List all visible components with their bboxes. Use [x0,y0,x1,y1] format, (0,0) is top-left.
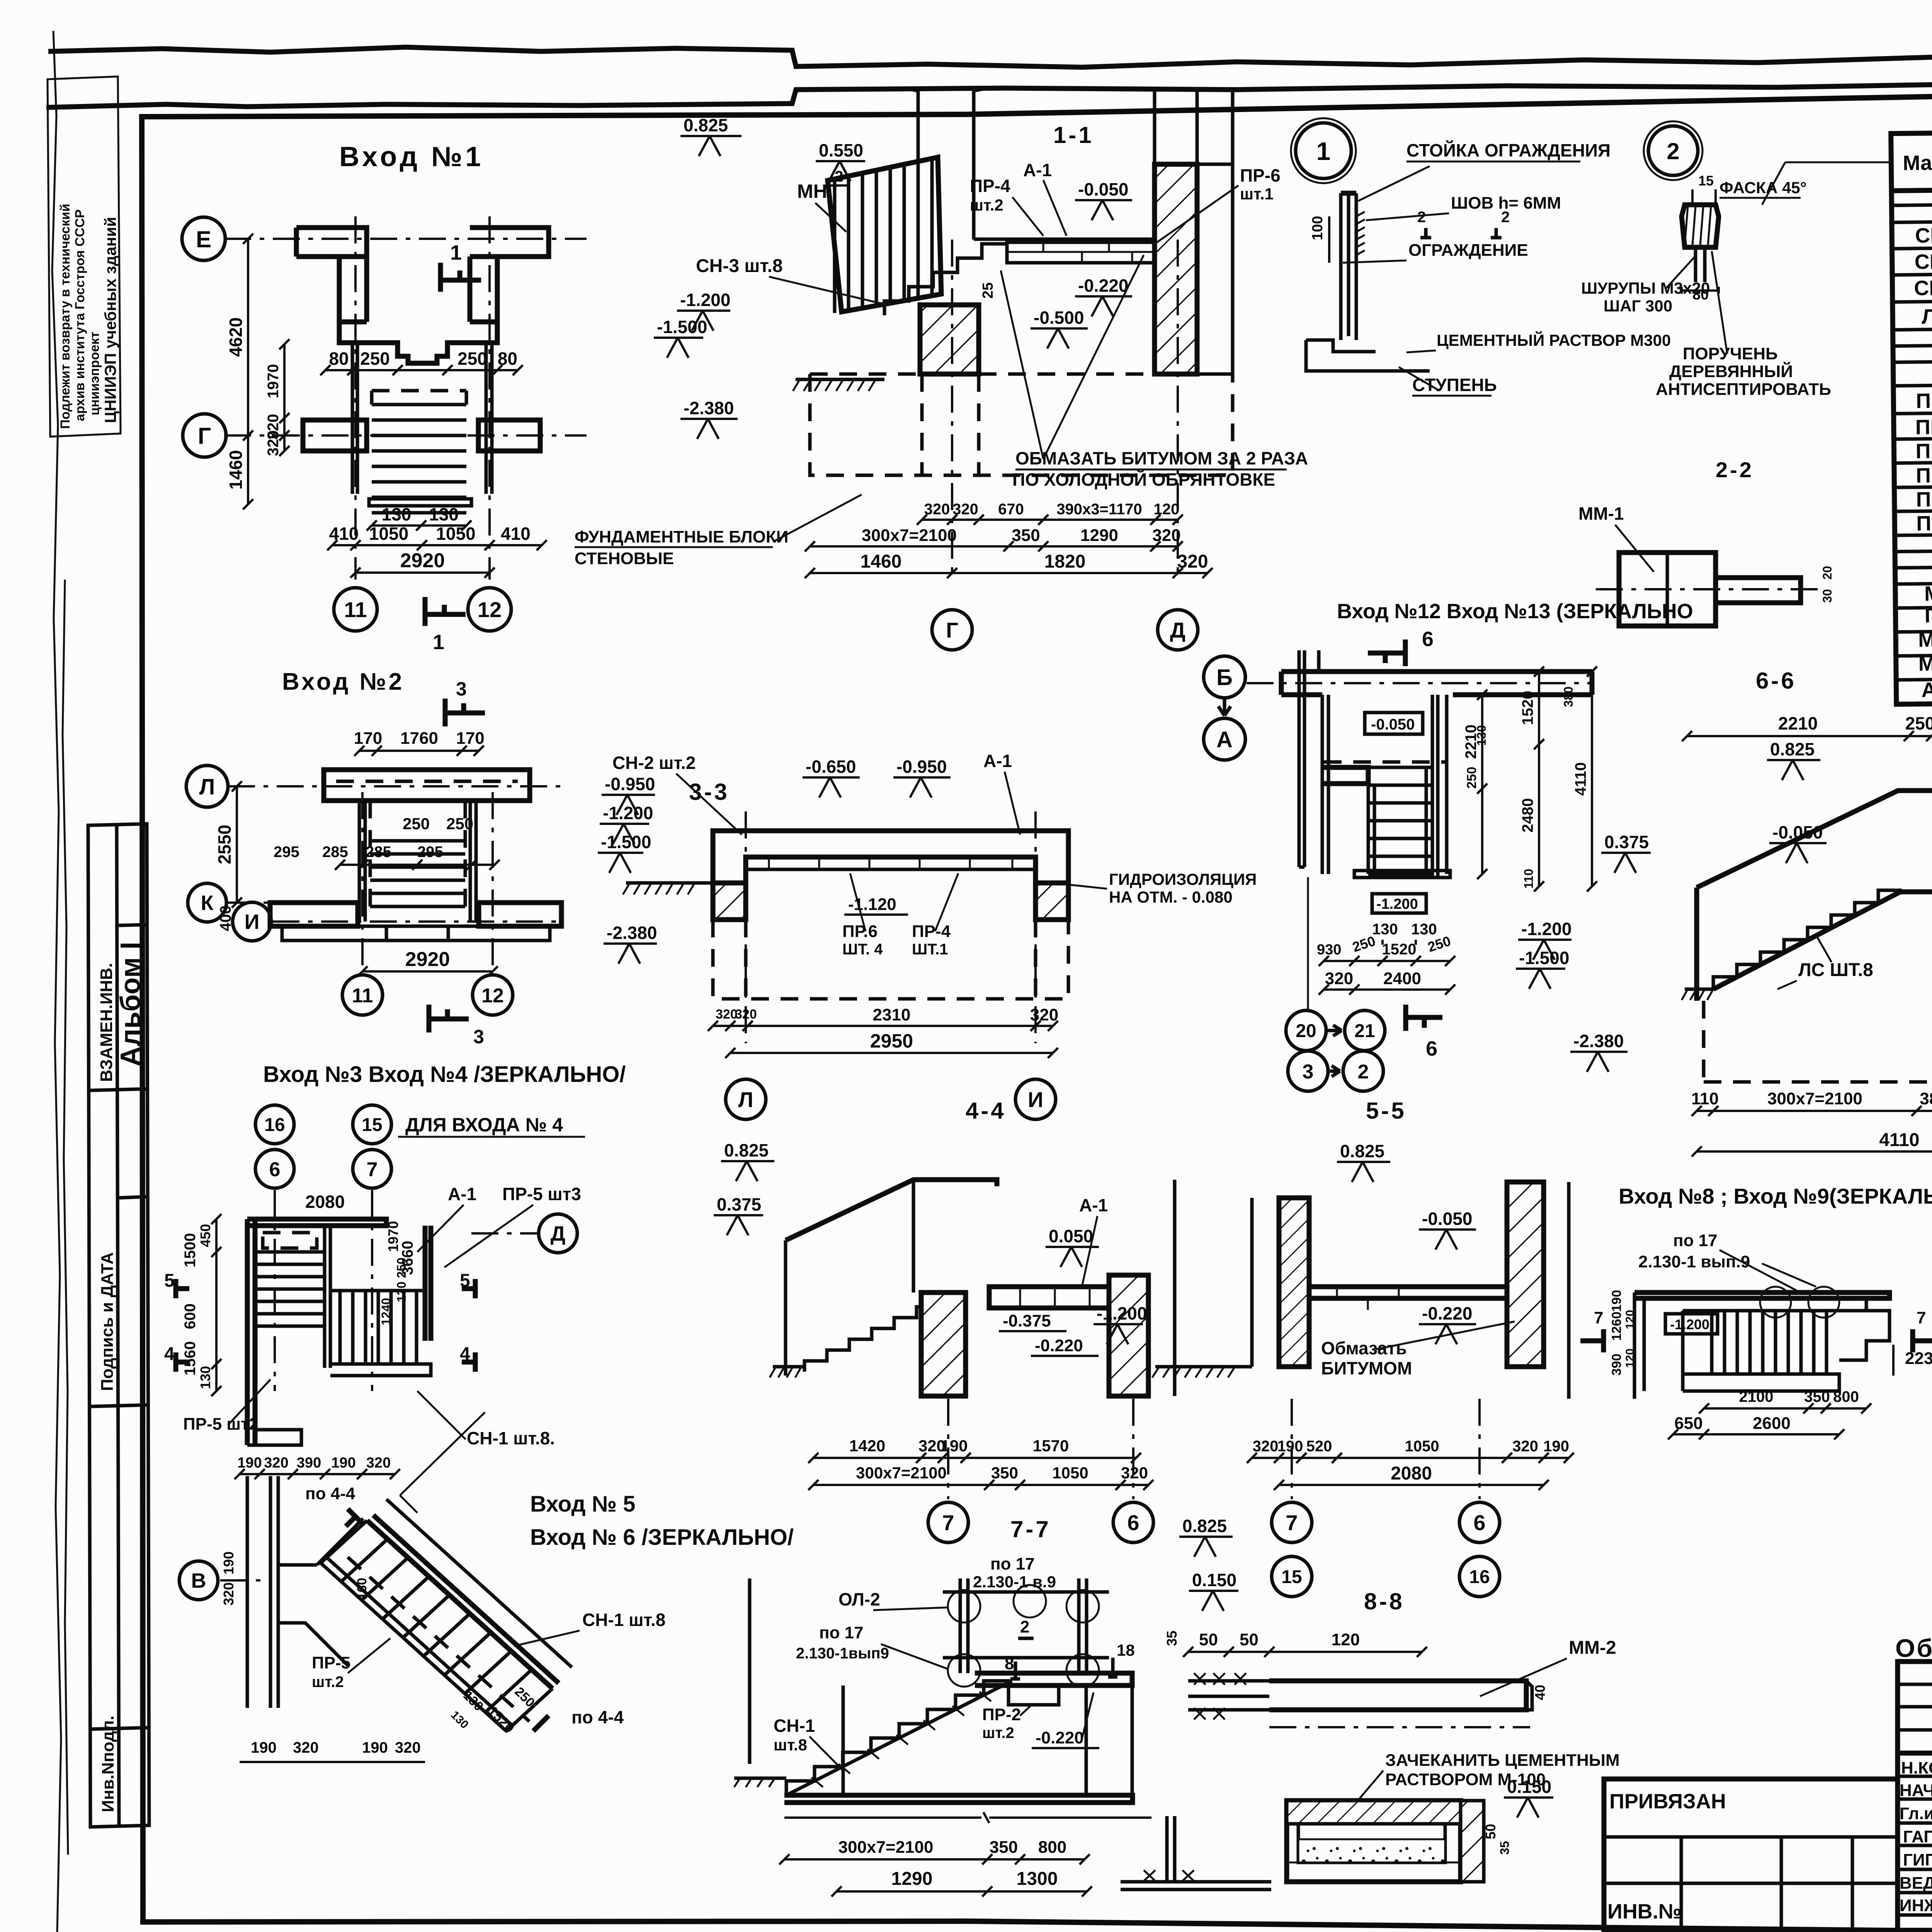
plan Вход №12: section flag 6 top [1368,639,1405,666]
svg-text:120: 120 [1624,1349,1636,1368]
circle 7a [353,1150,391,1188]
axis circle Л [186,765,228,807]
Вход №8: ring circles on plan [1760,1287,1791,1318]
plan Вход №12: vertical dims right [1481,695,1483,874]
Вход №3: lower treads vertical [340,1291,417,1364]
svg-text:350: 350 [1012,526,1040,545]
section 3-3: slab fill lines [769,857,1012,869]
svg-text:110: 110 [1691,1089,1719,1108]
svg-text:ИНЖЕНЕР: ИНЖЕНЕР [1900,1896,1932,1915]
svg-text:80: 80 [329,349,349,369]
plan Вход №12: stair treads [1368,767,1432,874]
svg-text:-0.650: -0.650 [806,757,856,777]
svg-text:3: 3 [473,1026,484,1048]
svg-text:-0.220: -0.220 [1422,1303,1472,1323]
svg-text:190: 190 [1609,1290,1624,1312]
section 7-7: stringer hatch marks [811,1692,991,1787]
svg-text:100: 100 [1310,216,1326,240]
svg-text:4110: 4110 [1572,762,1589,796]
Вход №8: 7 flags [1580,1329,1604,1352]
plan Вход №1: dim 2920 [355,571,490,574]
svg-text:1570: 1570 [1033,1437,1069,1455]
svg-text:130: 130 [382,504,412,524]
svg-text:320: 320 [1325,969,1353,988]
Вход №3: dim 190 320 390 190 320 [240,1473,395,1475]
svg-text:-0.220: -0.220 [1035,1336,1083,1355]
svg-text:30: 30 [1820,589,1834,603]
plan Вход №12: dim 320 2400 [1324,988,1450,991]
circle 16 (5-5) [1459,1556,1500,1597]
section 3-3: left support hatched [713,883,746,920]
svg-text:190: 190 [1277,1438,1303,1455]
svg-text:16: 16 [264,1115,285,1135]
svg-text:250: 250 [403,815,430,833]
plan Вход №2: inner dashed [370,801,465,908]
svg-text:-0.220: -0.220 [1036,1728,1084,1747]
plan Вход №12: dim row 930 250 1520 250 [1324,960,1450,962]
plan: arrow 3-2 [1328,1066,1340,1077]
axis circle Е [182,217,225,260]
Вход №3: plan walls [247,1219,255,1445]
svg-text:ММ-2: ММ-2 [1569,1638,1616,1658]
svg-text:300х7=2100: 300х7=2100 [1767,1089,1862,1108]
svg-text:Е: Е [196,226,211,252]
svg-text:190: 190 [237,1455,262,1471]
svg-text:ЛС ШТ.8: ЛС ШТ.8 [1798,960,1873,980]
plan Вход №1: U wall right vertical [470,257,497,322]
svg-text:Вход № 5: Вход № 5 [530,1492,636,1517]
svg-text:320: 320 [735,1007,757,1022]
specification table [1891,126,1932,704]
svg-text:СТЕНОВЫЕ: СТЕНОВЫЕ [575,549,674,568]
svg-text:410: 410 [501,524,531,544]
svg-text:190: 190 [221,1551,236,1575]
section 1-1: right wall hatched [1155,164,1197,374]
svg-text:Вход № 6 /ЗЕРКАЛЬНО/: Вход № 6 /ЗЕРКАЛЬНО/ [530,1525,794,1550]
circle 21a [1345,1010,1385,1051]
torn paper left edge scribble [52,31,62,1932]
svg-text:-1.200: -1.200 [1670,1316,1709,1332]
svg-text:ПР-5: ПР-5 [312,1653,350,1672]
svg-text:ПР-4: ПР-4 [912,922,951,941]
svg-text:2230: 2230 [1905,1349,1932,1368]
svg-text:2-2: 2-2 [1716,457,1754,482]
svg-text:ШУРУПЫ М3х20: ШУРУПЫ М3х20 [1581,279,1710,297]
svg-text:Гл.инж.АМ: Гл.инж.АМ [1900,1804,1932,1823]
axis circle Г (1-1) [932,610,972,650]
plan Вход №1: section mark 1 top [440,263,481,292]
svg-text:ШТ.1: ШТ.1 [912,941,948,958]
svg-text:930: 930 [1317,942,1341,958]
section 1-1: dim chain 300x7 [810,545,1178,548]
section 5-5: left wall [1252,1198,1279,1367]
svg-text:320: 320 [264,1455,288,1471]
svg-text:1240: 1240 [379,1298,393,1325]
detail 8-8: lower detail angle [1121,1816,1271,1889]
plan Вход №2: axis К [188,883,226,922]
svg-text:8: 8 [1005,1654,1014,1673]
svg-text:-2.380: -2.380 [684,398,734,418]
svg-text:1970: 1970 [385,1221,401,1252]
svg-text:6-6: 6-6 [1756,668,1796,694]
svg-text:320: 320 [1177,551,1208,572]
svg-text:5-5: 5-5 [1366,1098,1406,1124]
section 5-5: right wall lines [1544,1182,1569,1399]
svg-text:-1.500: -1.500 [601,832,651,852]
axis circle Л (3-3) [726,1079,766,1119]
svg-text:320: 320 [1152,526,1180,545]
svg-text:-2.380: -2.380 [607,923,657,943]
plan Вход №12: -0.050 box [1365,713,1423,734]
section 7-7: stringer [786,1681,1012,1795]
section 6-6: dim 2210 250 1650 320 [1687,735,1932,737]
svg-text:2080: 2080 [305,1192,345,1212]
section 3-3: dim 320 320 2310 320 [713,1025,1053,1027]
svg-text:ДЕРЕВЯННЫЙ: ДЕРЕВЯННЫЙ [1669,361,1793,381]
svg-text:ГАП: ГАП [1903,1827,1932,1846]
svg-text:ШАГ 300: ШАГ 300 [1604,297,1672,315]
svg-text:ОГРАЖДЕНИЕ: ОГРАЖДЕНИЕ [1408,241,1528,260]
svg-text:1: 1 [433,631,444,654]
svg-text:350: 350 [990,1838,1018,1857]
svg-text:50: 50 [1240,1630,1259,1649]
node 2: post below [1696,247,1705,282]
svg-text:1050: 1050 [369,524,408,544]
Вход №5: diagonal stair rails [367,1515,559,1689]
node 1: stanchion post [1341,193,1356,340]
plan Вход №1: dim 410 1050 1050 410 [332,544,542,546]
svg-text:архив института Госстроя СССР: архив института Госстроя СССР [73,209,87,421]
svg-text:СН-2: СН-2 [1915,250,1932,274]
svg-text:320: 320 [716,1007,738,1022]
plan Вход №12: -1200 box [1372,894,1426,913]
section 4-4: ground [773,1365,804,1369]
svg-text:11: 11 [352,985,373,1007]
svg-text:АНТИСЕПТИРОВАТЬ: АНТИСЕПТИРОВАТЬ [1656,380,1831,399]
svg-text:шт.2: шт.2 [970,196,1003,214]
section 1-1: upper floor wall left [908,89,983,240]
node detail circle 2 [1648,126,1698,175]
svg-text:1: 1 [1316,137,1331,165]
svg-text:ГИП: ГИП [1903,1850,1932,1869]
svg-text:50: 50 [1199,1630,1218,1649]
svg-text:ПР.6: ПР.6 [842,922,878,941]
section 3-3: dim 2950 [730,1052,1053,1054]
section 4-4: wall below parapet [786,1180,913,1376]
svg-text:320: 320 [1030,1005,1058,1024]
svg-text:шт.8: шт.8 [774,1736,807,1754]
axis circle Д (1-1) [1158,610,1198,650]
detail 8-8: dotted fill [1298,1839,1445,1862]
svg-text:-0.375: -0.375 [1003,1311,1051,1330]
svg-text:ЦНИИЭП учебных зданий: ЦНИИЭП учебных зданий [101,217,119,423]
svg-text:0.375: 0.375 [717,1194,761,1214]
plan: arrow 20-21 [1326,1025,1342,1036]
svg-text:300х7=2100: 300х7=2100 [838,1838,934,1857]
svg-text:16: 16 [1469,1567,1490,1587]
section 5-5: left wall hatched [1279,1198,1309,1367]
svg-text:20: 20 [1296,1021,1316,1041]
detail 8-8: bar [1269,1681,1526,1710]
svg-text:410: 410 [329,524,359,544]
svg-text:2: 2 [1358,1061,1369,1083]
plan Вход №2: dim 295 285 285 295 [340,864,495,866]
svg-text:Д: Д [1170,618,1185,642]
svg-text:ПР-4: ПР-4 [970,176,1010,196]
svg-text:СН-2 шт.2: СН-2 шт.2 [612,753,696,773]
svg-text:Д: Д [551,1222,565,1245]
svg-text:-1.120: -1.120 [848,895,896,914]
svg-text:130: 130 [1411,921,1437,938]
svg-text:Б: Б [1216,665,1233,690]
Вход №3: axis Д circle [539,1214,577,1253]
svg-text:Обмазать: Обмазать [1321,1338,1407,1358]
svg-text:-1.200: -1.200 [680,290,730,310]
plan Вход №1: upper wall left wing [296,228,367,257]
svg-text:НАЧ.АПМ1: НАЧ.АПМ1 [1900,1781,1932,1800]
svg-text:320: 320 [265,430,282,456]
svg-text:-0.050: -0.050 [1422,1209,1472,1229]
plan Вход №2: lower step band [282,926,550,940]
axis circle 6 (5-5) [1459,1502,1500,1543]
plan Вход №12: right wall [1432,695,1447,877]
plan Вход №1: dim 130 130 [372,524,466,527]
svg-text:-0.220: -0.220 [1078,276,1128,296]
svg-text:285: 285 [366,844,391,861]
plan Вход №12: top wall band [1281,672,1592,695]
svg-text:СН-3: СН-3 [1914,276,1932,300]
section 7-7: ground hatch left [734,1777,786,1780]
plan Вход №12: leader to 20 [1307,877,1309,1010]
plan Вход №1: landing dashed [372,391,466,405]
section 3-3: body [713,831,1068,883]
svg-text:ПРИВЯЗАН: ПРИВЯЗАН [1609,1790,1726,1813]
plan Вход №1: axis 11 vertical [354,216,357,580]
svg-text:ПОРУЧЕНЬ: ПОРУЧЕНЬ [1683,344,1778,363]
section 3-3: axis dash-dot Л И [745,811,747,1043]
svg-text:1820: 1820 [1044,551,1086,572]
Вход №3: landing dashed [263,1233,317,1248]
svg-text:250: 250 [360,349,390,369]
Вход №8: treads vertical [1712,1311,1827,1374]
svg-text:250: 250 [446,815,473,833]
svg-text:Инв.Nподл.: Инв.Nподл. [99,1716,117,1812]
svg-text:380: 380 [1561,687,1575,707]
svg-text:1520: 1520 [1519,691,1536,725]
svg-text:250: 250 [457,349,487,369]
svg-text:320: 320 [366,1455,391,1471]
svg-text:-1.200: -1.200 [1521,919,1571,939]
svg-text:1290: 1290 [1080,526,1118,545]
svg-text:1460: 1460 [861,551,902,572]
svg-text:ПР-3: ПР-3 [1915,439,1932,463]
svg-text:40: 40 [1532,1685,1548,1700]
svg-text:по 17: по 17 [819,1623,864,1642]
svg-text:190: 190 [1543,1438,1569,1455]
plan Вход №12: landing L-wall [1324,767,1368,784]
node 2: handrail section [1682,205,1719,247]
axis circle И (3-3) [1015,1079,1056,1119]
detail 8-8: trough inner [1298,1824,1445,1862]
Вход №8: right step [1839,1311,1889,1360]
svg-text:-0.050: -0.050 [1371,716,1415,733]
plan Вход №1: stair pit side walls [352,344,492,494]
detail 8-8: trough section [1287,1801,1461,1882]
svg-text:шт.1: шт.1 [1240,185,1274,203]
axis circle 11 (2) [342,975,383,1015]
plan Вход №2: dim 170 1760 170 [359,750,479,752]
svg-text:0.375: 0.375 [1604,832,1649,852]
section 6-6: stringer line [1713,892,1900,989]
svg-text:190: 190 [362,1739,388,1756]
node 1: step block [1306,340,1430,371]
svg-text:5: 5 [164,1270,175,1291]
svg-text:0.825: 0.825 [1770,739,1815,759]
svg-text:-1.200: -1.200 [1376,896,1418,912]
svg-text:120: 120 [1624,1310,1636,1329]
svg-text:4: 4 [164,1344,175,1364]
svg-text:1560: 1560 [182,1341,199,1376]
svg-text:ПР-1: ПР-1 [1916,389,1932,413]
section 1-1: steps [884,244,1006,315]
Вход №8: bottom edge [1683,1311,1839,1391]
svg-text:400: 400 [217,905,234,931]
svg-text:250: 250 [1464,767,1479,789]
svg-text:-1.200: -1.200 [1097,1303,1147,1323]
svg-text:ПР-5 шт3: ПР-5 шт3 [502,1184,581,1204]
svg-text:шт.2: шт.2 [312,1673,344,1690]
svg-text:120: 120 [1332,1630,1360,1649]
svg-text:80: 80 [498,349,517,369]
Вход №3: lower band [330,1291,431,1376]
section 4-4: right wall hatched [1109,1275,1148,1396]
svg-text:160: 160 [355,1578,369,1600]
plan Вход №1: dim 1970/320/320 vertical [283,344,286,451]
svg-text:390: 390 [297,1455,321,1471]
svg-text:25: 25 [980,282,996,299]
svg-text:6: 6 [269,1158,281,1181]
plan Вход №1: axis 12 vertical [488,216,491,580]
svg-text:Вход №3 Вход №4 /ЗЕРКАЛЬНО/: Вход №3 Вход №4 /ЗЕРКАЛЬНО/ [263,1062,626,1087]
svg-text:35: 35 [1498,1841,1512,1855]
svg-text:0.825: 0.825 [1340,1141,1384,1161]
svg-text:6: 6 [1473,1510,1485,1535]
torn paper secondary line left [46,77,1932,107]
plan Вход №1: bottom slab [369,499,471,506]
svg-text:20: 20 [1820,566,1834,580]
svg-text:6: 6 [1426,1037,1437,1060]
svg-text:К: К [201,891,214,915]
svg-text:2210: 2210 [1778,713,1818,733]
Вход №8: top wall band [1683,1298,1866,1311]
svg-text:2: 2 [1020,1617,1029,1636]
svg-text:450: 450 [197,1224,213,1247]
svg-text:ММ-2: ММ-2 [1918,652,1932,675]
svg-text:1460: 1460 [226,450,246,490]
Вход №3: left rotated dim chain [215,1219,218,1391]
svg-text:0.825: 0.825 [724,1140,769,1160]
Вход №8: dim 2100 350 800 [1704,1407,1866,1410]
plan Вход №12: section flag 6 bottom [1406,1005,1442,1031]
svg-text:ГИДРОИЗОЛЯЦИЯ: ГИДРОИЗОЛЯЦИЯ [1109,870,1257,888]
svg-text:1300: 1300 [1017,1869,1058,1889]
svg-text:В: В [191,1569,206,1592]
svg-text:120: 120 [1154,501,1180,518]
svg-text:БИТУМОМ: БИТУМОМ [1321,1358,1412,1378]
plan Вход №1: lower side wall right [478,420,540,451]
title block [1898,1662,1932,1930]
plan Вход №12: bottom slab [1354,871,1450,878]
svg-text:Марка: Марка [1903,151,1932,175]
svg-text:Вход №12 Вход №13 (ЗЕРКАЛЬНО: Вход №12 Вход №13 (ЗЕРКАЛЬНО [1337,600,1693,623]
svg-text:1260: 1260 [1609,1311,1624,1341]
svg-text:7: 7 [1917,1308,1926,1327]
svg-text:6: 6 [1127,1510,1139,1535]
svg-text:3: 3 [1303,1061,1314,1083]
svg-text:цнииэпроект: цнииэпроект [87,332,102,415]
section 5-5: dim 320 190 520 1050 320 190 [1252,1457,1569,1459]
plan Вход №12: plan box left wall [1322,695,1328,874]
svg-text:21: 21 [1354,1021,1375,1041]
section 1-1: railing МН hatched [828,157,941,312]
svg-text:2400: 2400 [1383,969,1421,988]
svg-text:2.130-1вып9: 2.130-1вып9 [796,1645,889,1662]
svg-text:2100: 2100 [1739,1388,1774,1405]
svg-text:170: 170 [456,729,484,748]
svg-text:1970: 1970 [265,364,282,398]
svg-text:130: 130 [197,1366,213,1389]
plan Вход №2: stair treads [370,841,465,906]
section 1-1: foundation dashed [810,374,1233,475]
svg-text:320: 320 [395,1739,421,1756]
svg-text:ВЗАМЕН.ИНВ.: ВЗАМЕН.ИНВ. [97,963,116,1082]
svg-text:3660: 3660 [399,1241,416,1275]
section 4-4: steps (4-4) [804,1296,961,1372]
svg-text:1760: 1760 [400,729,438,748]
section 1-1: right wall outer [1197,164,1233,374]
svg-text:800: 800 [1038,1838,1066,1857]
left stamp boxes bottom [88,824,149,1827]
section 6-6: dim 4110 320 [1697,1150,1932,1153]
svg-text:320: 320 [221,1582,236,1605]
svg-text:7: 7 [942,1510,954,1535]
svg-text:2: 2 [1667,138,1679,164]
section 1-1: axis Д dash-dot [1177,240,1179,580]
section 1-1: left pier hatched [920,305,979,374]
svg-text:А-1: А-1 [1079,1195,1108,1215]
section 4-4: left pier hatched [921,1293,966,1396]
Вход №8: dim 650 2600 [1673,1433,1839,1435]
svg-text:8-8: 8-8 [1364,1588,1405,1614]
section 1-1: landing slab with bricks [1007,241,1157,263]
svg-text:Г: Г [198,423,211,449]
svg-text:Вход №8 ; Вход №9(ЗЕРКАЛЬНО): Вход №8 ; Вход №9(ЗЕРКАЛЬНО) [1619,1184,1932,1208]
svg-text:15: 15 [1698,173,1714,189]
svg-text:130: 130 [1372,921,1398,938]
svg-text:1500: 1500 [182,1233,199,1267]
svg-text:ММ-1: ММ-1 [1918,628,1932,651]
circle 2 [1343,1051,1383,1091]
svg-text:320: 320 [293,1739,319,1756]
axis circle 12 (2) [473,975,513,1015]
detail 8-8: left bar [1188,1681,1269,1710]
svg-text:-0.500: -0.500 [1034,308,1084,328]
section 6-6: foundation dashed [1704,1001,1932,1082]
svg-text:ММ-1: ММ-1 [1578,503,1624,524]
svg-text:350: 350 [991,1464,1018,1482]
svg-text:ПР-5 шт2: ПР-5 шт2 [183,1415,259,1434]
svg-text:2.130-1 вып.9: 2.130-1 вып.9 [1638,1252,1750,1271]
